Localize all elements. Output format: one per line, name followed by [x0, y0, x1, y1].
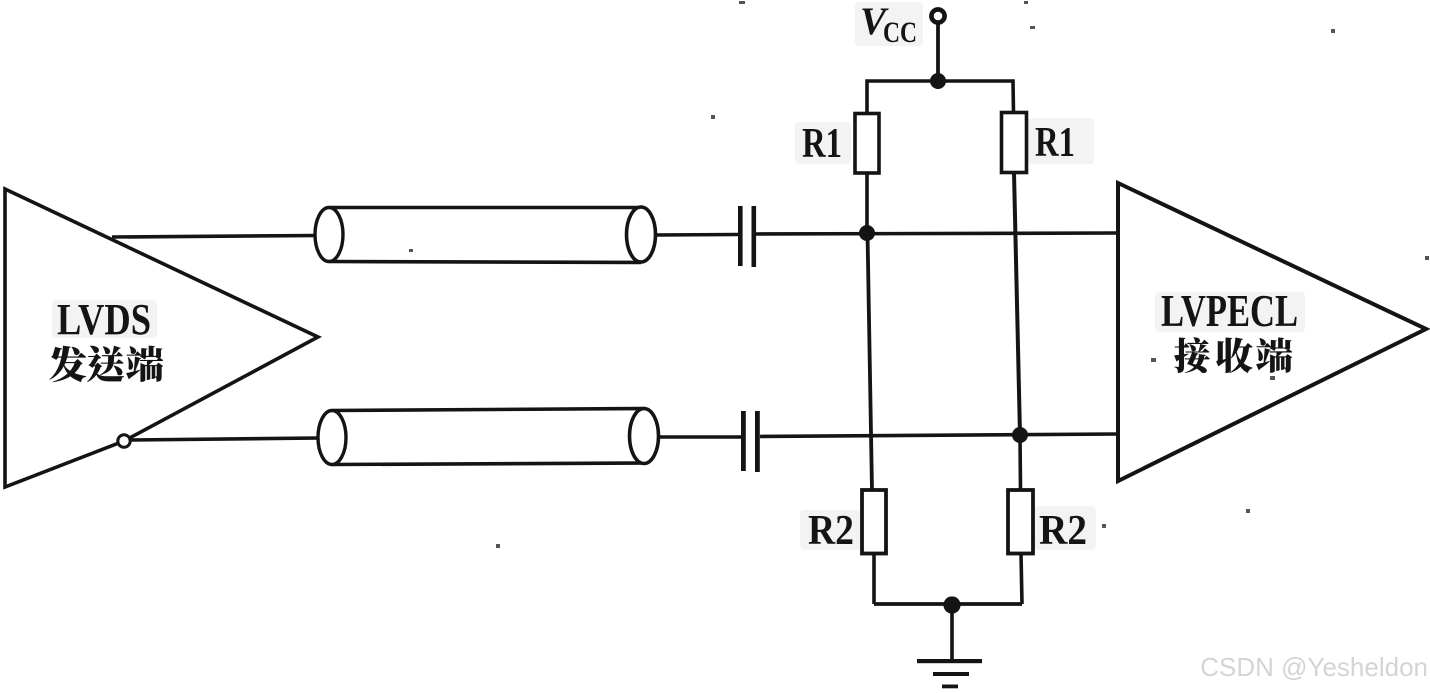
svg-text:LVPECL: LVPECL: [1161, 286, 1298, 336]
wire T2 to C2: [659, 435, 742, 439]
svg-text:LVDS: LVDS: [57, 295, 151, 344]
node A junction dot (top line, left column): [859, 225, 875, 241]
label R2 left: [808, 508, 854, 554]
wire VCC stub: [936, 23, 940, 81]
op-amp U1 LVDS driver triangle: [5, 189, 318, 487]
wire U1 top output to T1: [112, 236, 318, 238]
wire node A down across bottom line to R2 left: [868, 233, 873, 491]
resistor R2 (left): [862, 490, 886, 554]
label LVPECL: [1161, 286, 1298, 336]
svg-text:R2: R2: [1039, 508, 1087, 554]
label 发送端 (transmit end): [49, 346, 163, 382]
resistor R1 (right): [1002, 113, 1027, 173]
transmission line T2 (bottom coax cylinder): [318, 409, 659, 465]
transmission line T1 (top coax cylinder): [315, 207, 656, 263]
watermark CSDN @Yesheldon: [1200, 652, 1428, 683]
label R2 right: [1039, 508, 1087, 554]
wire node B to R2 right: [1018, 435, 1022, 491]
wire R2 left to ground bus: [872, 554, 876, 605]
resistor R1 (left): [855, 114, 879, 174]
wire C2 to U2 bottom input (net IN-): [760, 434, 1118, 437]
label R1 left: [802, 121, 842, 167]
ground symbol: [917, 659, 982, 688]
wire R1 right down across top line to node B: [1014, 173, 1020, 436]
label VCC: [860, 0, 917, 49]
wire ground stub: [950, 605, 954, 661]
capacitor C1: [738, 206, 756, 267]
wire U1 bottom output (bubble) to T2: [131, 438, 320, 440]
wire VCC bus: [867, 81, 1014, 114]
VCC terminal: [931, 9, 944, 22]
svg-text:R2: R2: [808, 508, 854, 554]
resistor R2 (right): [1008, 490, 1033, 554]
svg-text:R1: R1: [802, 121, 842, 167]
node B junction dot (bottom line, right column): [1012, 427, 1028, 443]
wire R1 left to node A: [865, 173, 869, 233]
op-amp U2 LVPECL receiver triangle: [1118, 183, 1426, 481]
node ground junction dot: [943, 596, 960, 613]
capacitor C2: [741, 411, 760, 472]
label R1 right: [1035, 120, 1075, 166]
wire C1 to U2 top input (net IN+): [756, 233, 1118, 234]
inversion bubble on U1 output: [118, 435, 130, 447]
wire R2 right to ground bus: [1021, 554, 1022, 605]
svg-text:CC: CC: [883, 16, 917, 49]
wire ground bus: [874, 602, 1022, 606]
wire T1 to C1: [656, 233, 739, 237]
node VCC junction dot: [930, 73, 946, 89]
label 接收端 (receive end): [1174, 337, 1292, 373]
svg-text:R1: R1: [1035, 120, 1075, 166]
label LVDS: [57, 295, 151, 344]
scan specks (noise): [409, 1, 1429, 548]
